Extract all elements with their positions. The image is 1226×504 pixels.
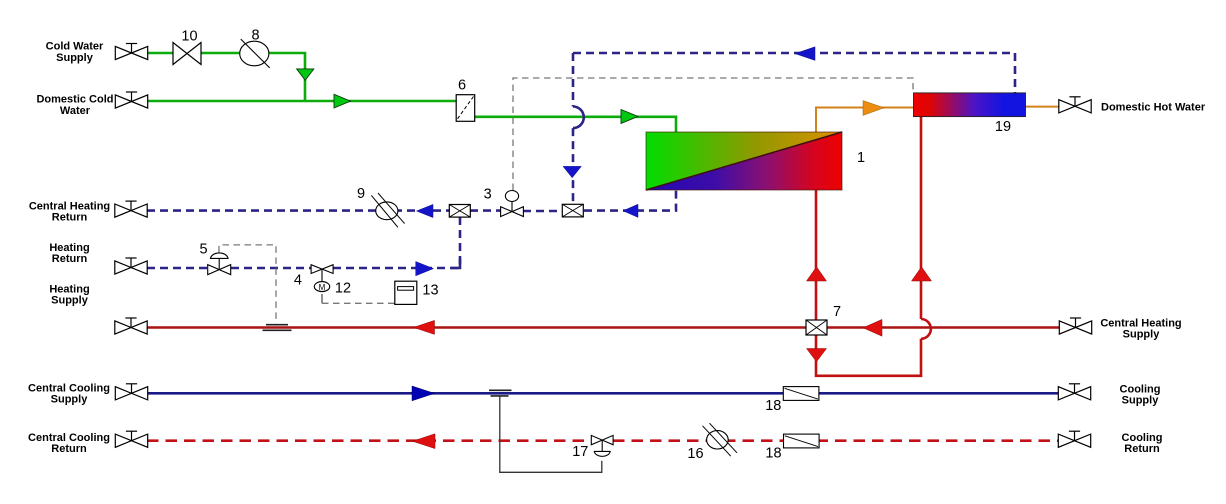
svg-text:6: 6 xyxy=(458,78,466,94)
valve 5 with dome actuator xyxy=(208,265,231,275)
arrow: blue flow arrow right on cooling supply xyxy=(412,386,435,401)
sensor tap bars on cooling supply pipe xyxy=(489,390,512,396)
boundary valve: heating return xyxy=(115,258,147,274)
svg-text:M: M xyxy=(319,283,326,292)
box component on heating return at x460 xyxy=(449,205,470,218)
arrow: green flow arrow down at junction xyxy=(297,69,314,80)
valve 4 with motor actuator 12 xyxy=(311,265,333,274)
box component on heating return at x573 xyxy=(562,204,583,217)
svg-text:4: 4 xyxy=(294,273,302,289)
svg-text:12: 12 xyxy=(335,281,351,297)
boundary valve: domestic hot water xyxy=(1059,97,1091,113)
boundary valve: central heating supply xyxy=(1059,318,1091,334)
wire: heating return blue dashed valve 5 to valve 4 xyxy=(231,267,311,270)
wire: red pipe unit 7 bottom, elbow to right riser xyxy=(816,335,921,376)
arrow: red flow arrow up left riser xyxy=(807,267,827,281)
wire: red pipe heat exchanger 1 bottom to unit 7 top xyxy=(815,190,818,320)
svg-text:16: 16 xyxy=(687,446,703,462)
arrow: red flow arrow down under unit 7 xyxy=(807,349,827,362)
wire: heating return blue dashed pipe valve to valve 5 xyxy=(147,267,208,270)
valve 10 xyxy=(173,43,201,65)
arrow: orange flow arrow right xyxy=(863,101,884,116)
wire: blue dashed between box 460 and valve 3 xyxy=(470,209,502,212)
svg-text:18: 18 xyxy=(765,446,781,462)
svg-text:Return: Return xyxy=(52,253,88,265)
boundary valve: cooling return right xyxy=(1058,431,1090,447)
svg-text:19: 19 xyxy=(995,119,1011,135)
arrow: red flow arrow up right riser xyxy=(912,267,932,281)
svg-text:8: 8 xyxy=(251,28,259,44)
svg-text:Cold Water: Cold Water xyxy=(46,41,104,53)
wire: grey dashed control line from valve 3 actuator up and over to mixer 19 xyxy=(513,78,913,190)
motor actuator 12 (M circle) xyxy=(314,282,329,292)
svg-text:Return: Return xyxy=(52,212,88,224)
wire: corner joint at heating return riser xyxy=(451,259,460,269)
wire: heating supply red pipe from left valve to unit 7 xyxy=(147,326,806,329)
boundary valve: domestic cold water xyxy=(115,92,147,108)
arrow: blue flow arrow left before box 573 xyxy=(623,204,638,217)
wire: blue dashed between valve 3 and box 573 xyxy=(523,210,562,213)
svg-text:7: 7 xyxy=(833,304,841,320)
wire: green pipe filter 6 to heat exchanger 1 top inlet xyxy=(475,117,676,132)
meter 16 circle with double diagonal xyxy=(707,431,729,449)
heat exchanger 1 upper triangle xyxy=(646,132,842,190)
wire: domestic cold water green pipe to filter 6 xyxy=(148,100,456,103)
wire: central cooling return red dashed pipe right section xyxy=(613,439,1058,442)
arrow: green flow arrow right on domestic line xyxy=(334,94,351,108)
wire: red right riser hop over heating supply pipe xyxy=(921,319,931,339)
arrow: red flow arrow left on cooling return xyxy=(413,434,436,449)
wire: orange pipe heat exchanger 1 top outlet to mixer 19 xyxy=(816,108,914,133)
svg-text:18: 18 xyxy=(765,398,781,414)
wire: cold water supply green pipe valve to valve 10 xyxy=(148,52,174,55)
controller 13 box xyxy=(395,281,417,304)
wire: central heating supply red pipe unit 7 to right valve xyxy=(827,326,1059,329)
wire: blue dashed top bypass pipe from node at x573 to mixer 19 xyxy=(573,52,1015,55)
boundary valve: central cooling return xyxy=(115,431,147,447)
svg-text:Supply: Supply xyxy=(1123,329,1161,341)
svg-text:Return: Return xyxy=(51,443,87,455)
svg-text:Supply: Supply xyxy=(1122,395,1160,407)
svg-text:13: 13 xyxy=(422,283,438,299)
wire: green pipe pump 8 to junction, down to domestic line xyxy=(268,53,305,101)
valve 17 with dome actuator below xyxy=(591,435,613,444)
svg-text:1: 1 xyxy=(857,150,865,166)
wire: blue dashed from box 573 to heat exchanger 1 bottom left xyxy=(584,190,676,211)
meter 9 circle with double diagonal xyxy=(376,202,398,220)
wire: blue dashed branch from box 460 down to heating return line xyxy=(459,217,462,268)
arrow: red flow arrow left on heating supply xyxy=(414,320,435,334)
arrow: blue flow arrow down on x573 vertical xyxy=(563,166,581,177)
wire: heating return blue dashed valve 4 to corner x460 xyxy=(333,267,460,270)
svg-text:9: 9 xyxy=(357,186,365,202)
boundary valve: cooling supply right xyxy=(1058,384,1090,400)
mixer 19 gradient box xyxy=(914,93,1026,117)
arrow: blue flow arrow left on top bypass xyxy=(795,47,815,61)
wire: orange pipe mixer 19 to domestic hot water valve xyxy=(1026,106,1060,108)
wire: blue dashed drop into mixer 19 top xyxy=(1014,53,1017,93)
svg-text:Supply: Supply xyxy=(56,52,94,64)
boundary valve: central heating return xyxy=(115,201,147,217)
svg-text:Water: Water xyxy=(60,105,91,117)
boundary valve: central cooling supply xyxy=(115,384,147,400)
heat exchanger 1 diagonal and outline xyxy=(646,132,842,190)
arrow: blue flow arrow left after meter 9 xyxy=(417,204,434,217)
wire: green pipe valve 10 to pump 8 xyxy=(200,52,241,55)
svg-text:3: 3 xyxy=(484,187,492,203)
wire: red right riser up to mixer 19 bottom xyxy=(920,117,923,320)
svg-text:Supply: Supply xyxy=(51,295,89,307)
boundary valve: heating supply xyxy=(115,318,147,334)
arrow: green flow arrow right before heat exchanger xyxy=(621,110,638,124)
svg-text:Return: Return xyxy=(1124,443,1160,455)
unit 7 box with X xyxy=(806,320,827,335)
sensor tap bars on heating supply pipe xyxy=(263,325,292,331)
boundary valve: cold water supply xyxy=(115,44,147,60)
balance unit 18 on cooling supply xyxy=(783,387,819,401)
svg-text:Domestic Cold: Domestic Cold xyxy=(36,94,113,106)
arrow: red flow arrow left near unit 7 xyxy=(863,319,882,336)
svg-text:Supply: Supply xyxy=(51,394,89,406)
svg-text:17: 17 xyxy=(572,444,588,460)
wire: central cooling supply blue pipe xyxy=(147,392,1058,395)
heat exchanger 1 lower triangle xyxy=(646,132,842,190)
wire: central heating return blue dashed pipe (left section to meter 9) xyxy=(147,209,450,212)
wire: blue dashed vertical at x573 with hop over green pipe xyxy=(572,53,575,107)
wire: central cooling return red dashed pipe left section xyxy=(147,439,592,442)
wire: grey dashed control line valve 5 to heating supply sensor xyxy=(219,245,276,324)
svg-text:Domestic Hot Water: Domestic Hot Water xyxy=(1101,102,1206,114)
arrow: blue flow arrow right on heating return xyxy=(416,262,434,276)
valve 3 with circle actuator xyxy=(501,207,524,217)
wire: control line actuator 12 to controller 13 xyxy=(321,294,323,303)
pump 8 xyxy=(240,41,269,66)
svg-text:10: 10 xyxy=(181,29,197,45)
wire: black control line cooling sensor to valve 17 actuator xyxy=(500,397,602,473)
balance unit 18 on cooling return xyxy=(784,434,820,448)
svg-text:5: 5 xyxy=(199,242,207,258)
filter 6 box with dashed diagonal xyxy=(456,95,475,122)
